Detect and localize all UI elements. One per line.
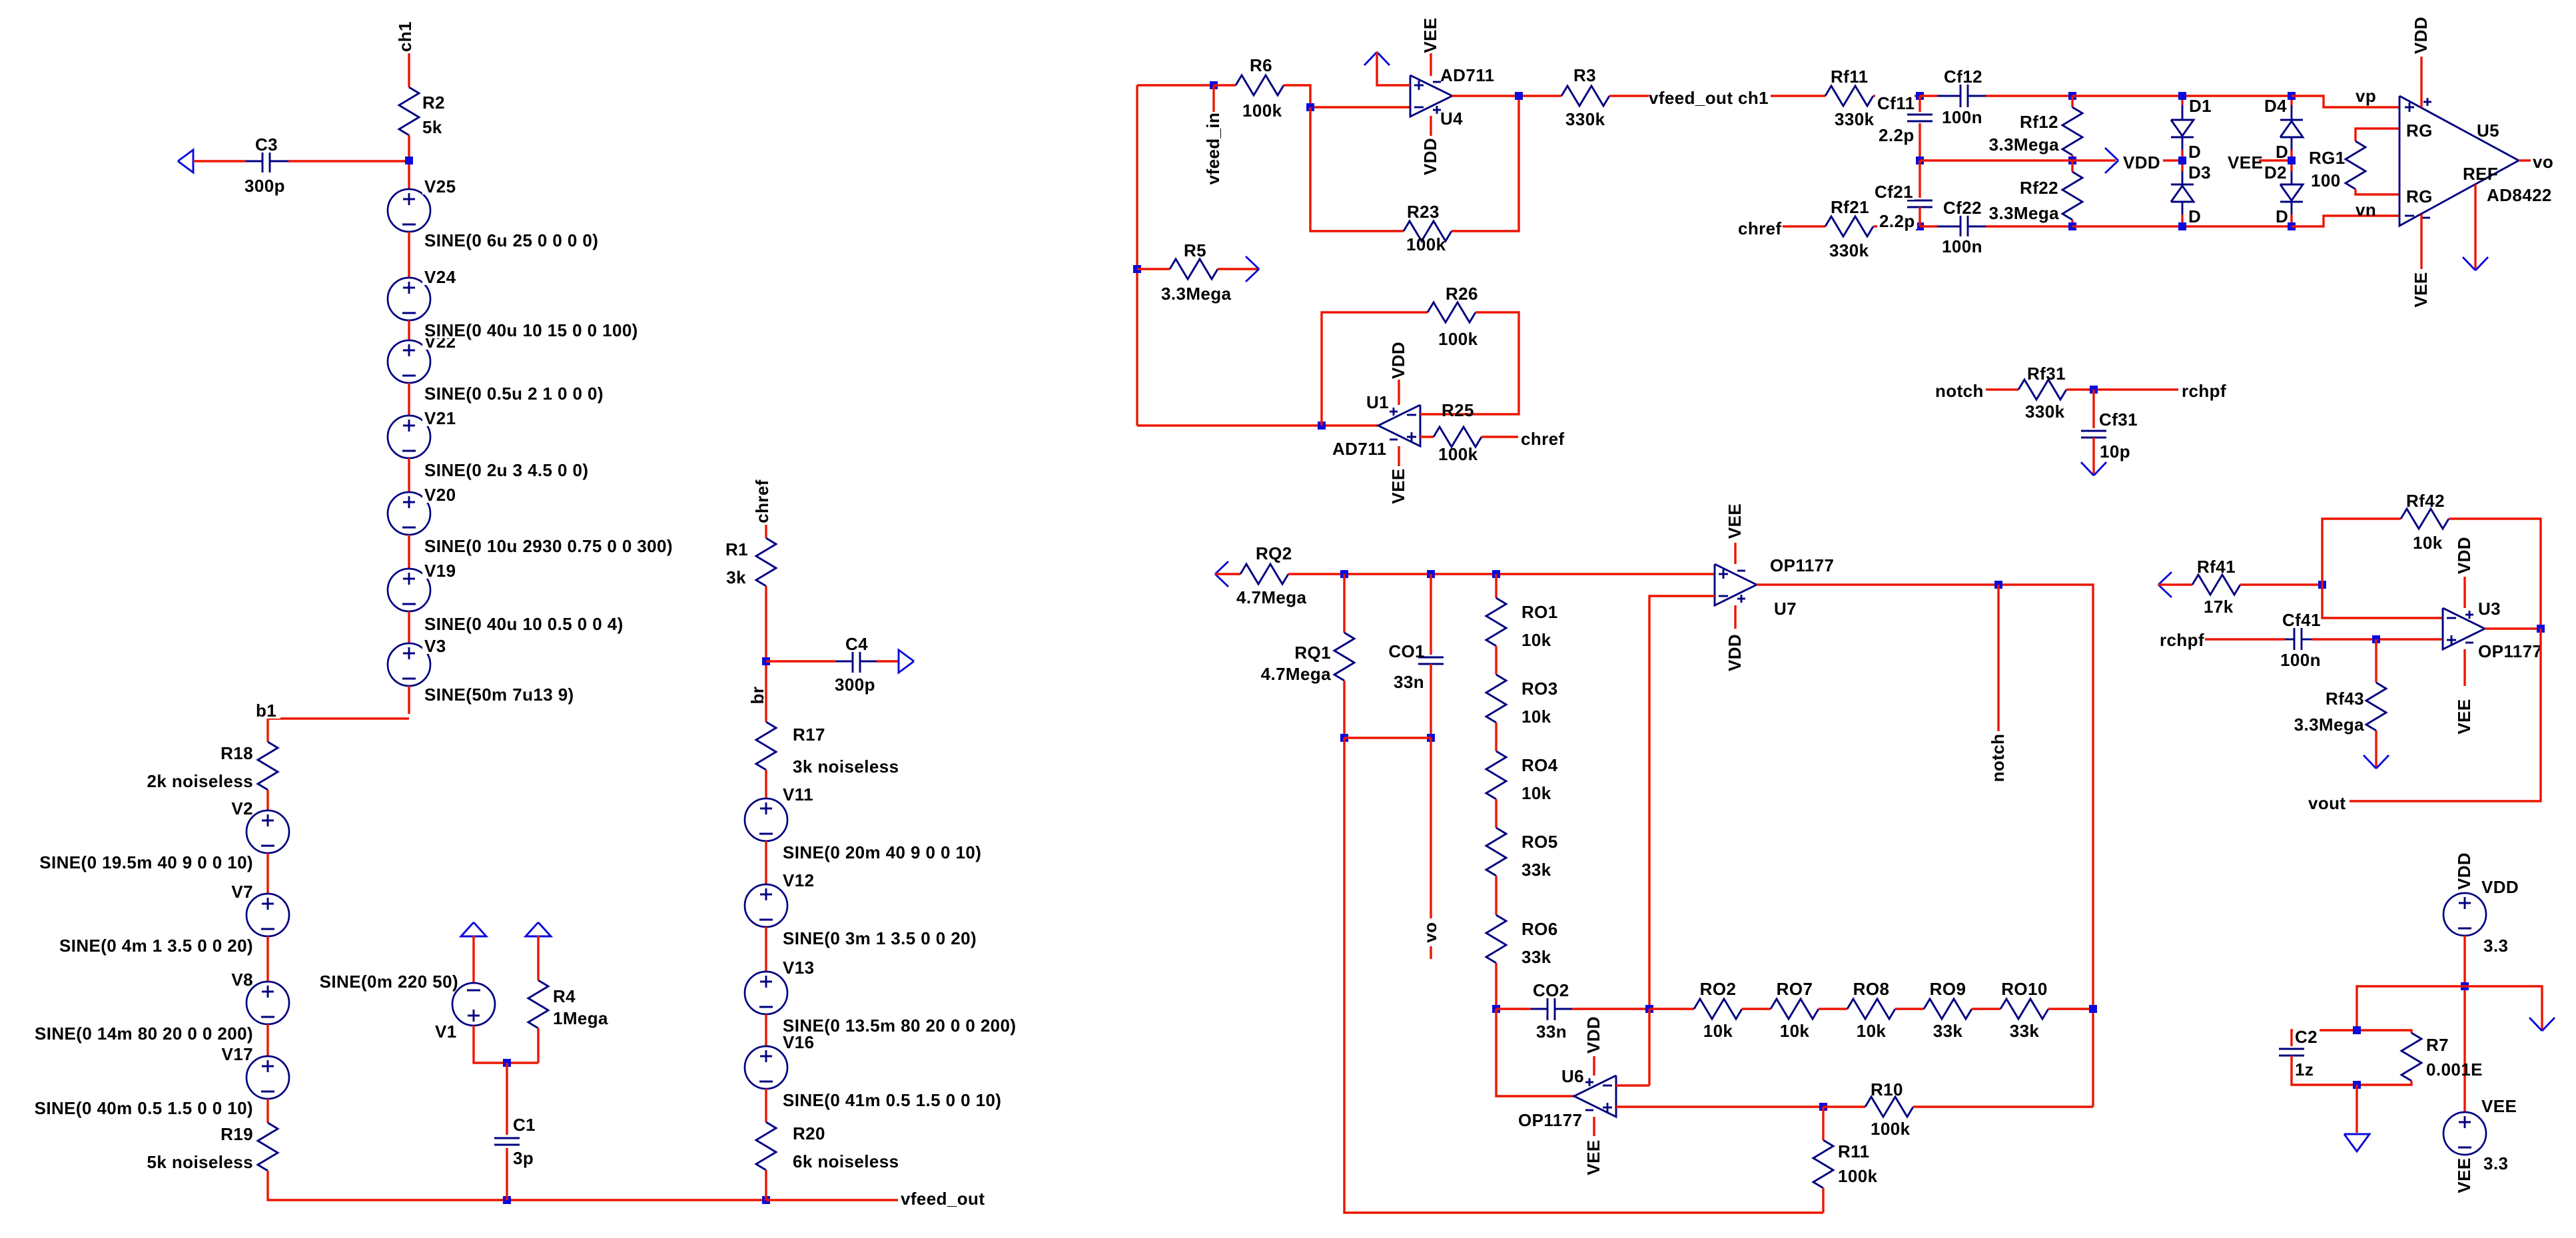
svg-text:3k: 3k xyxy=(726,567,746,587)
svg-text:10p: 10p xyxy=(2100,442,2130,462)
svg-text:RG1: RG1 xyxy=(2309,148,2346,168)
svg-text:SINE(0 41m 0.5 1.5 0 0 10): SINE(0 41m 0.5 1.5 0 0 10) xyxy=(783,1090,1001,1110)
svg-text:V21: V21 xyxy=(424,408,456,428)
svg-text:D: D xyxy=(2188,142,2201,162)
svg-text:VDD: VDD xyxy=(2454,537,2474,574)
svg-text:SINE(0 40m 0.5 1.5 0 0 10): SINE(0 40m 0.5 1.5 0 0 10) xyxy=(35,1098,253,1118)
svg-text:330k: 330k xyxy=(1565,109,1605,129)
svg-text:100: 100 xyxy=(2311,170,2341,190)
svg-text:VEE: VEE xyxy=(2228,153,2263,172)
svg-text:V13: V13 xyxy=(783,958,814,978)
svg-text:VEE: VEE xyxy=(1420,17,1440,53)
svg-text:VDD: VDD xyxy=(1725,634,1745,671)
svg-text:SINE(0 4m 1 3.5 0 0 20): SINE(0 4m 1 3.5 0 0 20) xyxy=(59,936,253,956)
svg-text:SINE(0 40u 10 15 0 0 100): SINE(0 40u 10 15 0 0 100) xyxy=(424,320,638,340)
svg-text:300p: 300p xyxy=(244,176,285,196)
svg-text:V3: V3 xyxy=(424,636,446,656)
svg-text:10k: 10k xyxy=(1703,1021,1733,1041)
svg-text:D2: D2 xyxy=(2264,162,2287,182)
svg-text:V2: V2 xyxy=(231,798,253,818)
svg-text:33k: 33k xyxy=(1933,1021,1963,1041)
svg-text:V12: V12 xyxy=(783,870,814,890)
svg-text:C2: C2 xyxy=(2295,1027,2318,1047)
svg-text:RO6: RO6 xyxy=(1521,919,1558,939)
svg-text:U1: U1 xyxy=(1366,392,1389,412)
svg-text:RG: RG xyxy=(2406,121,2433,141)
svg-text:330k: 330k xyxy=(1835,109,1875,129)
svg-text:R2: R2 xyxy=(422,93,445,113)
svg-text:RO8: RO8 xyxy=(1853,979,1890,999)
svg-text:OP1177: OP1177 xyxy=(1770,555,1834,575)
svg-text:C4: C4 xyxy=(845,634,868,654)
svg-text:3.3Mega: 3.3Mega xyxy=(1989,203,2060,223)
svg-text:U6: U6 xyxy=(1561,1066,1584,1086)
svg-text:RG: RG xyxy=(2406,186,2433,206)
svg-text:REF: REF xyxy=(2463,164,2498,184)
svg-text:10k: 10k xyxy=(2413,533,2443,553)
svg-text:AD711: AD711 xyxy=(1332,439,1387,459)
svg-text:V17: V17 xyxy=(222,1044,253,1064)
svg-text:Cf31: Cf31 xyxy=(2099,410,2138,430)
svg-text:VEE: VEE xyxy=(1388,468,1408,503)
svg-text:AD711: AD711 xyxy=(1440,65,1495,85)
svg-text:33n: 33n xyxy=(1536,1022,1567,1042)
svg-text:3k noiseless: 3k noiseless xyxy=(793,757,899,776)
svg-text:33k: 33k xyxy=(1521,947,1551,967)
svg-text:10k: 10k xyxy=(1521,783,1551,803)
svg-text:330k: 330k xyxy=(1829,240,1869,260)
svg-text:Rf42: Rf42 xyxy=(2406,491,2445,511)
svg-text:OP1177: OP1177 xyxy=(2478,641,2542,661)
svg-text:3.3: 3.3 xyxy=(2483,936,2508,956)
svg-text:VEE: VEE xyxy=(2454,699,2474,734)
svg-text:100k: 100k xyxy=(1438,444,1478,464)
svg-text:RQ1: RQ1 xyxy=(1294,643,1331,663)
svg-text:RQ2: RQ2 xyxy=(1256,543,1292,563)
svg-text:VDD: VDD xyxy=(1420,138,1440,175)
svg-text:Cf11: Cf11 xyxy=(1877,93,1915,113)
svg-text:vfeed_out ch1: vfeed_out ch1 xyxy=(1649,88,1769,108)
svg-text:2.2p: 2.2p xyxy=(1879,125,1915,145)
svg-text:SINE(50m 7u13 9): SINE(50m 7u13 9) xyxy=(424,685,574,705)
svg-text:100n: 100n xyxy=(1942,236,1982,256)
svg-text:R10: R10 xyxy=(1871,1080,1903,1099)
svg-text:RO1: RO1 xyxy=(1521,602,1558,622)
svg-text:5k: 5k xyxy=(422,117,442,137)
svg-text:R11: R11 xyxy=(1838,1141,1869,1161)
svg-text:chref: chref xyxy=(752,479,772,523)
svg-text:R17: R17 xyxy=(793,725,825,745)
svg-text:6k noiseless: 6k noiseless xyxy=(793,1151,899,1171)
svg-text:SINE(0 6u 25 0 0 0 0): SINE(0 6u 25 0 0 0 0) xyxy=(424,230,598,250)
svg-text:Rf11: Rf11 xyxy=(1831,67,1869,87)
svg-text:10k: 10k xyxy=(1521,630,1551,650)
svg-text:Rf21: Rf21 xyxy=(1831,197,1869,217)
svg-text:b1: b1 xyxy=(256,701,276,721)
svg-text:VEE: VEE xyxy=(2454,1157,2474,1193)
svg-text:3.3Mega: 3.3Mega xyxy=(2294,715,2365,735)
svg-text:notch: notch xyxy=(1988,734,2008,782)
svg-text:10k: 10k xyxy=(1857,1021,1887,1041)
svg-text:1z: 1z xyxy=(2295,1060,2314,1080)
svg-text:3.3Mega: 3.3Mega xyxy=(1989,135,2060,155)
svg-text:SINE(0 0.5u 2 1 0 0 0): SINE(0 0.5u 2 1 0 0 0) xyxy=(424,384,604,404)
svg-text:C3: C3 xyxy=(255,135,278,155)
svg-text:V1: V1 xyxy=(435,1022,457,1042)
svg-text:33n: 33n xyxy=(1394,672,1424,692)
svg-text:D3: D3 xyxy=(2188,162,2211,182)
svg-text:10k: 10k xyxy=(1780,1021,1810,1041)
svg-text:R1: R1 xyxy=(725,539,748,559)
svg-text:rchpf: rchpf xyxy=(2160,630,2204,650)
svg-text:R19: R19 xyxy=(220,1124,253,1144)
svg-text:100k: 100k xyxy=(1871,1119,1911,1139)
svg-text:chref: chref xyxy=(1738,218,1782,238)
svg-text:chref: chref xyxy=(1521,429,1565,449)
svg-text:R26: R26 xyxy=(1446,284,1478,304)
svg-text:R7: R7 xyxy=(2426,1035,2449,1055)
svg-text:SINE(0 2u 3 4.5 0 0): SINE(0 2u 3 4.5 0 0) xyxy=(424,460,588,480)
svg-text:V8: V8 xyxy=(231,970,253,990)
svg-text:100k: 100k xyxy=(1242,101,1282,121)
svg-text:RO3: RO3 xyxy=(1521,679,1558,699)
svg-text:vn: vn xyxy=(2356,200,2376,220)
svg-text:D: D xyxy=(2276,206,2288,226)
svg-text:Rf12: Rf12 xyxy=(2020,112,2058,132)
svg-text:1Mega: 1Mega xyxy=(553,1008,608,1028)
svg-text:VDD: VDD xyxy=(1388,342,1408,379)
svg-text:Rf22: Rf22 xyxy=(2020,178,2058,198)
svg-text:100n: 100n xyxy=(2280,650,2321,670)
svg-text:100k: 100k xyxy=(1406,234,1446,254)
svg-text:V24: V24 xyxy=(424,267,456,287)
svg-text:2k noiseless: 2k noiseless xyxy=(147,771,253,791)
svg-text:RO7: RO7 xyxy=(1777,979,1813,999)
svg-text:3.3: 3.3 xyxy=(2483,1153,2508,1173)
svg-text:CO2: CO2 xyxy=(1533,980,1569,1000)
svg-text:SINE(0 10u 2930 0.75 0 0 300): SINE(0 10u 2930 0.75 0 0 300) xyxy=(424,536,673,556)
svg-text:br: br xyxy=(747,687,767,705)
svg-text:RO2: RO2 xyxy=(1700,979,1737,999)
svg-text:300p: 300p xyxy=(835,675,875,695)
svg-text:2.2p: 2.2p xyxy=(1879,211,1915,231)
svg-text:vout: vout xyxy=(2308,793,2346,813)
svg-text:VDD: VDD xyxy=(2123,153,2160,172)
svg-text:vfeed_in: vfeed_in xyxy=(1203,113,1223,185)
svg-text:OP1177: OP1177 xyxy=(1518,1110,1582,1130)
svg-text:CO1: CO1 xyxy=(1388,641,1425,661)
svg-text:VDD: VDD xyxy=(2411,17,2431,54)
svg-text:R4: R4 xyxy=(553,986,576,1006)
svg-text:vfeed_out: vfeed_out xyxy=(901,1189,985,1209)
svg-text:R5: R5 xyxy=(1184,240,1206,260)
svg-text:notch: notch xyxy=(1935,381,1984,401)
svg-text:100k: 100k xyxy=(1838,1166,1878,1186)
svg-text:SINE(0 14m 80 20 0 0 200): SINE(0 14m 80 20 0 0 200) xyxy=(35,1024,253,1044)
svg-text:Rf41: Rf41 xyxy=(2197,557,2236,577)
svg-text:5k noiseless: 5k noiseless xyxy=(147,1152,253,1172)
svg-text:Cf41: Cf41 xyxy=(2282,610,2321,630)
svg-text:33k: 33k xyxy=(2010,1021,2040,1041)
svg-text:U7: U7 xyxy=(1774,599,1797,619)
svg-text:Rf43: Rf43 xyxy=(2326,689,2364,709)
svg-text:VDD: VDD xyxy=(1583,1016,1603,1054)
svg-text:3p: 3p xyxy=(513,1148,534,1168)
svg-text:D: D xyxy=(2188,206,2201,226)
svg-text:VDD: VDD xyxy=(2481,877,2519,897)
svg-text:SINE(0 3m 1 3.5 0 0 20): SINE(0 3m 1 3.5 0 0 20) xyxy=(783,928,977,948)
svg-text:Rf31: Rf31 xyxy=(2027,364,2066,384)
svg-text:V25: V25 xyxy=(424,176,456,196)
svg-text:4.7Mega: 4.7Mega xyxy=(1261,664,1332,684)
svg-text:330k: 330k xyxy=(2025,402,2065,422)
svg-text:V20: V20 xyxy=(424,485,456,505)
svg-text:C1: C1 xyxy=(513,1115,536,1135)
svg-text:SINE(0 13.5m 80 20 0 0 200): SINE(0 13.5m 80 20 0 0 200) xyxy=(783,1016,1016,1036)
svg-text:4.7Mega: 4.7Mega xyxy=(1236,587,1307,607)
svg-text:RO4: RO4 xyxy=(1521,755,1558,775)
svg-text:RO5: RO5 xyxy=(1521,832,1558,852)
svg-text:R20: R20 xyxy=(793,1123,825,1143)
svg-text:ch1: ch1 xyxy=(395,21,415,52)
svg-text:rchpf: rchpf xyxy=(2182,381,2226,401)
svg-text:U4: U4 xyxy=(1440,109,1463,129)
svg-text:U5: U5 xyxy=(2477,121,2499,141)
svg-text:VEE: VEE xyxy=(2411,272,2431,307)
svg-text:100k: 100k xyxy=(1438,329,1478,349)
svg-text:V7: V7 xyxy=(231,882,253,902)
svg-text:VEE: VEE xyxy=(1725,503,1745,539)
svg-text:100n: 100n xyxy=(1942,107,1982,127)
svg-text:D1: D1 xyxy=(2189,96,2212,116)
svg-text:VEE: VEE xyxy=(2481,1096,2517,1116)
svg-text:R18: R18 xyxy=(220,743,253,763)
svg-text:0.001E: 0.001E xyxy=(2426,1060,2483,1080)
svg-text:V19: V19 xyxy=(424,561,456,581)
svg-text:V16: V16 xyxy=(783,1032,814,1052)
svg-text:Cf22: Cf22 xyxy=(1943,198,1982,218)
svg-text:RO9: RO9 xyxy=(1930,979,1966,999)
svg-text:33k: 33k xyxy=(1521,860,1551,880)
svg-text:SINE(0 19.5m 40 9 0 0 10): SINE(0 19.5m 40 9 0 0 10) xyxy=(39,852,253,872)
svg-text:RO10: RO10 xyxy=(2001,979,2048,999)
svg-text:AD8422: AD8422 xyxy=(2487,185,2552,205)
svg-text:Cf12: Cf12 xyxy=(1944,67,1982,87)
svg-text:SINE(0m 220 50): SINE(0m 220 50) xyxy=(320,972,458,992)
svg-text:D4: D4 xyxy=(2264,96,2287,116)
svg-text:17k: 17k xyxy=(2204,597,2234,617)
svg-text:U3: U3 xyxy=(2478,599,2501,619)
svg-text:R23: R23 xyxy=(1407,202,1440,222)
svg-text:Cf21: Cf21 xyxy=(1875,182,1913,202)
svg-text:R25: R25 xyxy=(1442,400,1474,420)
svg-text:VEE: VEE xyxy=(1583,1139,1603,1175)
svg-text:3.3Mega: 3.3Mega xyxy=(1161,284,1232,304)
svg-text:vp: vp xyxy=(2356,86,2376,106)
svg-text:10k: 10k xyxy=(1521,707,1551,727)
svg-text:vo: vo xyxy=(2533,152,2553,172)
svg-text:SINE(0 40u 10 0.5 0 0 4): SINE(0 40u 10 0.5 0 0 4) xyxy=(424,614,624,634)
svg-text:SINE(0 20m 40 9 0 0 10): SINE(0 20m 40 9 0 0 10) xyxy=(783,842,981,862)
svg-text:R3: R3 xyxy=(1573,65,1596,85)
svg-text:R6: R6 xyxy=(1250,55,1272,75)
svg-text:V11: V11 xyxy=(783,784,813,804)
svg-text:vo: vo xyxy=(1420,922,1440,942)
svg-text:VDD: VDD xyxy=(2454,852,2474,890)
svg-text:D: D xyxy=(2276,142,2288,162)
